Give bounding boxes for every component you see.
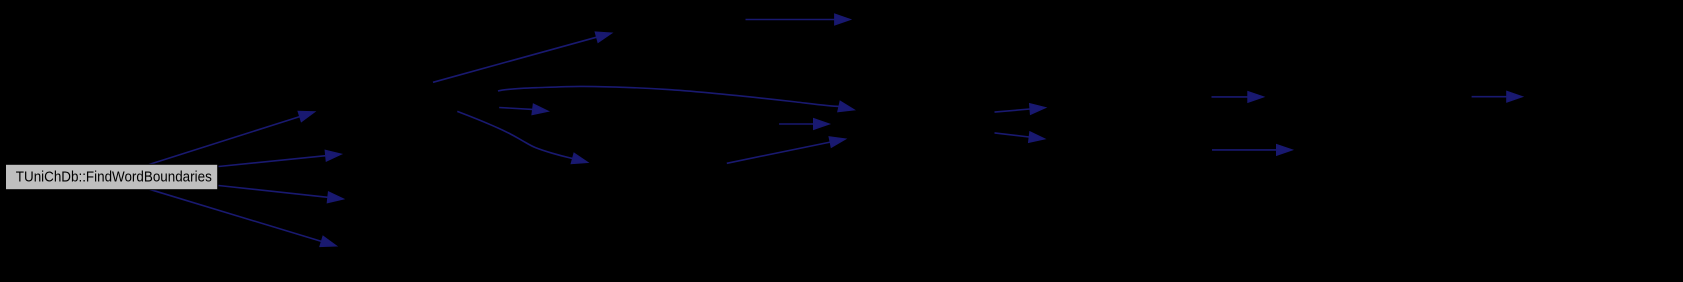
svg-text:TUniChDb::FindWordBoundaries: TUniChDb::FindWordBoundaries [16, 169, 212, 185]
